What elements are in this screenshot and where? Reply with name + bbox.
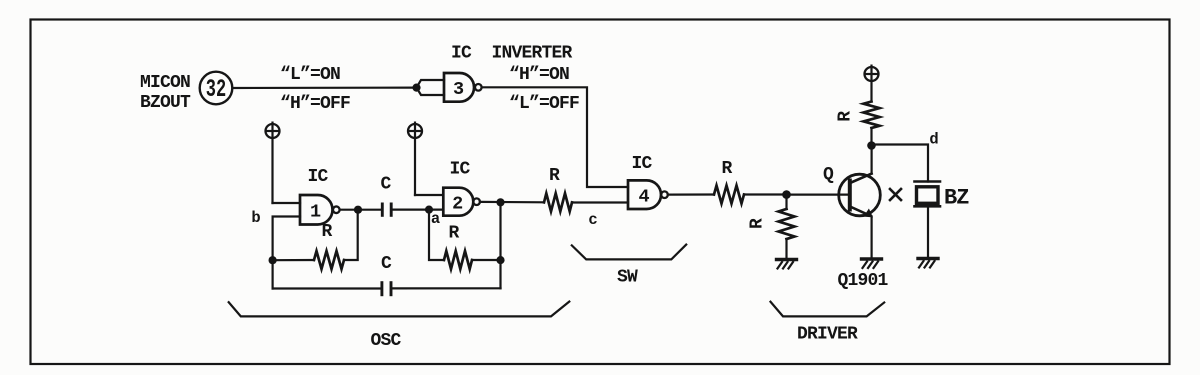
junction base node (782, 190, 791, 199)
OSC bracket (229, 302, 570, 317)
svg-text:Q: Q (823, 165, 834, 185)
wire R5 to ground (785, 239, 787, 258)
svg-text:R: R (836, 111, 856, 122)
DRIVER bracket (771, 302, 885, 317)
wire pin32 to gate3 input (233, 86, 417, 89)
junction gate2 output (496, 198, 504, 206)
svg-text:IC: IC (451, 44, 472, 64)
wire R4 to base node (744, 193, 787, 195)
op-amp U4 nand gate 4 (628, 180, 661, 209)
ground G3 (buzzer) (918, 257, 938, 260)
svg-text:“L”=ON: “L”=ON (280, 65, 340, 85)
wire R3 to gate4 (572, 201, 628, 203)
svg-text:d: d (929, 130, 938, 148)
buzzer BZ (915, 180, 941, 183)
wire VCC2 to gate2 top input (415, 194, 443, 196)
resistor R gate1 feedback (273, 259, 314, 261)
svg-text:SW: SW (617, 267, 638, 287)
op-amp U3 nand gate 3 (444, 73, 474, 102)
svg-text:MICON: MICON (140, 73, 190, 93)
junction gate1 output (354, 206, 362, 214)
transistor Q1901 (839, 174, 881, 216)
capacitor C1 (381, 203, 384, 217)
wire gate2 output junction down (499, 202, 501, 288)
wire node d to buzzer (872, 145, 929, 182)
svg-text:IC: IC (308, 167, 329, 187)
svg-text:4: 4 (638, 187, 649, 208)
svg-text:32: 32 (206, 76, 226, 104)
svg-text:R: R (322, 222, 333, 242)
wire bottom row (273, 287, 381, 289)
power VCC2 (408, 124, 422, 138)
power VCC3 (865, 67, 879, 81)
svg-text:1: 1 (310, 202, 321, 223)
ground G2 (emitter) (862, 257, 882, 260)
wire emitter down (870, 216, 872, 257)
svg-text:DRIVER: DRIVER (797, 324, 858, 344)
wire base node down (785, 195, 787, 209)
svg-text:C: C (381, 175, 392, 195)
svg-text:BZ: BZ (944, 185, 969, 210)
svg-text:OSC: OSC (371, 331, 402, 351)
wire gate4 out to R4 (668, 193, 714, 195)
wire R6 to collector junction (870, 128, 872, 146)
wire gate2 output (480, 201, 544, 204)
label IC INVERTER (451, 44, 573, 64)
junction gate2 feedback (496, 256, 504, 264)
svg-text:R: R (722, 159, 733, 179)
op-amp U2 nand gate 2 (443, 188, 473, 216)
wire node a down (429, 210, 444, 260)
wire collector node into transistor (870, 146, 872, 174)
wire VCC1 to gate1 top input (273, 202, 301, 204)
svg-text:“H”=ON: “H”=ON (509, 65, 569, 85)
svg-text:IC: IC (450, 159, 471, 179)
capacitor C2 (380, 281, 383, 296)
svg-text:INVERTER: INVERTER (492, 44, 573, 64)
resistor R gate2 feedback (444, 251, 472, 269)
wire node a to gate2 input (429, 209, 443, 211)
X mark (890, 189, 901, 200)
wire gate3 output to gate4 top input (482, 87, 628, 187)
wire C1 to node a (393, 209, 429, 211)
svg-text:2: 2 (452, 193, 463, 214)
svg-text:R: R (449, 224, 460, 244)
ground G1 (777, 258, 797, 261)
svg-text:R: R (549, 166, 560, 186)
resistor R4 (714, 186, 744, 204)
junction at gate3 input (412, 84, 420, 92)
svg-text:a: a (431, 210, 440, 228)
junction collector node (867, 141, 876, 150)
svg-text:“H”=OFF: “H”=OFF (280, 94, 350, 114)
svg-text:BZOUT: BZOUT (140, 93, 191, 113)
wire gate1 output row (340, 209, 381, 211)
svg-text:b: b (251, 209, 260, 227)
resistor R3 (544, 193, 572, 211)
wire base node to transistor (787, 194, 849, 196)
junction b-feedback (269, 256, 277, 264)
op-amp U1 nand gate 1 (300, 195, 333, 225)
svg-text:R: R (748, 218, 768, 229)
svg-text:“L”=OFF: “L”=OFF (509, 94, 579, 114)
svg-text:c: c (588, 211, 597, 229)
resistor R6 collector (864, 102, 880, 129)
label MICON BZOUT (140, 73, 191, 113)
node a (425, 206, 433, 214)
SW bracket (572, 245, 686, 260)
wire node b (273, 217, 300, 289)
pin 32 terminal (200, 72, 233, 105)
svg-text:3: 3 (453, 79, 464, 100)
resistor R5 pulldown (779, 209, 795, 239)
wire BZ to ground (927, 206, 929, 256)
power VCC1 (266, 124, 280, 138)
svg-text:C: C (381, 254, 392, 274)
svg-text:IC: IC (632, 154, 653, 174)
svg-text:Q1901: Q1901 (838, 271, 889, 291)
